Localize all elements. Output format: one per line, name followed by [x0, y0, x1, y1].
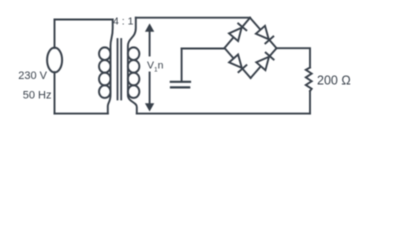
wire capacitor node to bridge left vertex — [182, 48, 225, 50]
wire primary bottom — [55, 113, 108, 115]
wire bottom rail — [137, 113, 310, 115]
diode D2 top-right — [250, 18, 277, 49]
wire top rail secondary to bridge — [136, 17, 250, 19]
capacitor C1 — [171, 49, 190, 88]
wire primary left upper — [54, 20, 56, 48]
svg-text:4 : 1: 4 : 1 — [113, 16, 134, 28]
diode D4 bottom-right — [251, 48, 277, 78]
transformer core — [118, 39, 122, 100]
diode D3 bottom-left — [225, 48, 251, 78]
svg-text:50 Hz: 50 Hz — [23, 90, 52, 102]
svg-text:V1n: V1n — [147, 60, 164, 74]
svg-text:200 Ω: 200 Ω — [317, 74, 351, 88]
diode D1 top-left — [225, 18, 251, 48]
wire bridge right vertex to resistor top — [277, 48, 311, 67]
svg-text:230 V: 230 V — [18, 70, 47, 82]
wire resistor bottom — [309, 91, 311, 114]
ac source V1 — [47, 48, 62, 73]
wire primary left lower — [54, 72, 56, 113]
voltage arrow V2n — [146, 24, 154, 110]
transformer T1 primary winding — [99, 20, 113, 114]
transformer secondary winding — [128, 18, 140, 114]
resistor R1 — [306, 68, 312, 92]
wire primary top — [55, 19, 113, 21]
